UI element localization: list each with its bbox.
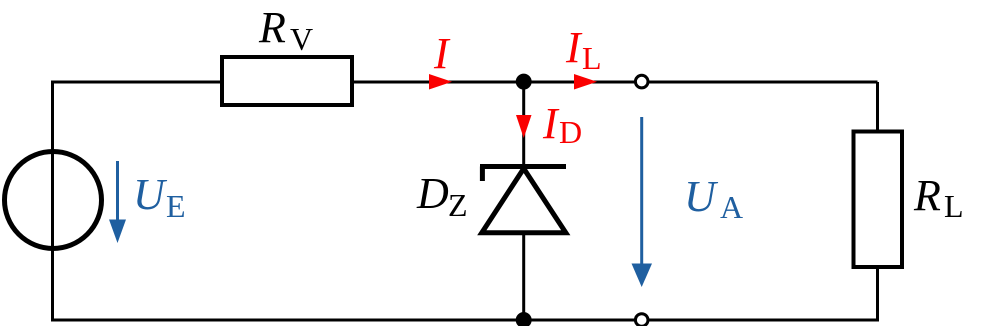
wire zener top segment	[522, 82, 525, 167]
zener diode D_Z triangle	[482, 169, 566, 233]
node terminal circle bottom	[635, 314, 648, 327]
current arrow I_L	[574, 74, 597, 90]
zener diode D_Z cathode tick	[480, 167, 485, 182]
wire bottom horizontal	[51, 319, 879, 322]
svg-text:L: L	[944, 188, 964, 224]
voltage source circle	[5, 152, 102, 249]
svg-text:I: I	[542, 99, 560, 148]
wire left vertical through source	[51, 82, 54, 320]
svg-text:D: D	[559, 114, 582, 150]
voltage arrow U_E	[116, 161, 119, 222]
node junction dot bottom	[516, 312, 532, 328]
voltage arrow U_A	[640, 117, 643, 266]
resistor R_L	[854, 132, 903, 268]
svg-text:I: I	[565, 23, 583, 72]
svg-text:I: I	[433, 29, 451, 78]
svg-text:R: R	[913, 171, 941, 220]
resistor R_V	[222, 57, 352, 105]
svg-text:U: U	[133, 170, 168, 219]
current arrow I	[429, 74, 452, 90]
wire right vertical	[876, 82, 879, 320]
current arrow I_D	[516, 115, 532, 138]
node junction dot top	[516, 74, 532, 90]
svg-text:R: R	[258, 3, 286, 52]
svg-text:D: D	[416, 169, 449, 218]
svg-text:U: U	[684, 172, 719, 221]
svg-text:E: E	[166, 188, 186, 224]
svg-text:L: L	[582, 40, 602, 76]
svg-text:A: A	[720, 189, 743, 225]
node terminal circle top	[635, 75, 648, 88]
wire zener bottom segment	[522, 233, 525, 320]
wire top horizontal	[51, 81, 878, 84]
zener diode D_Z cathode bar	[480, 164, 566, 169]
svg-text:V: V	[290, 21, 313, 57]
svg-text:Z: Z	[448, 187, 468, 223]
